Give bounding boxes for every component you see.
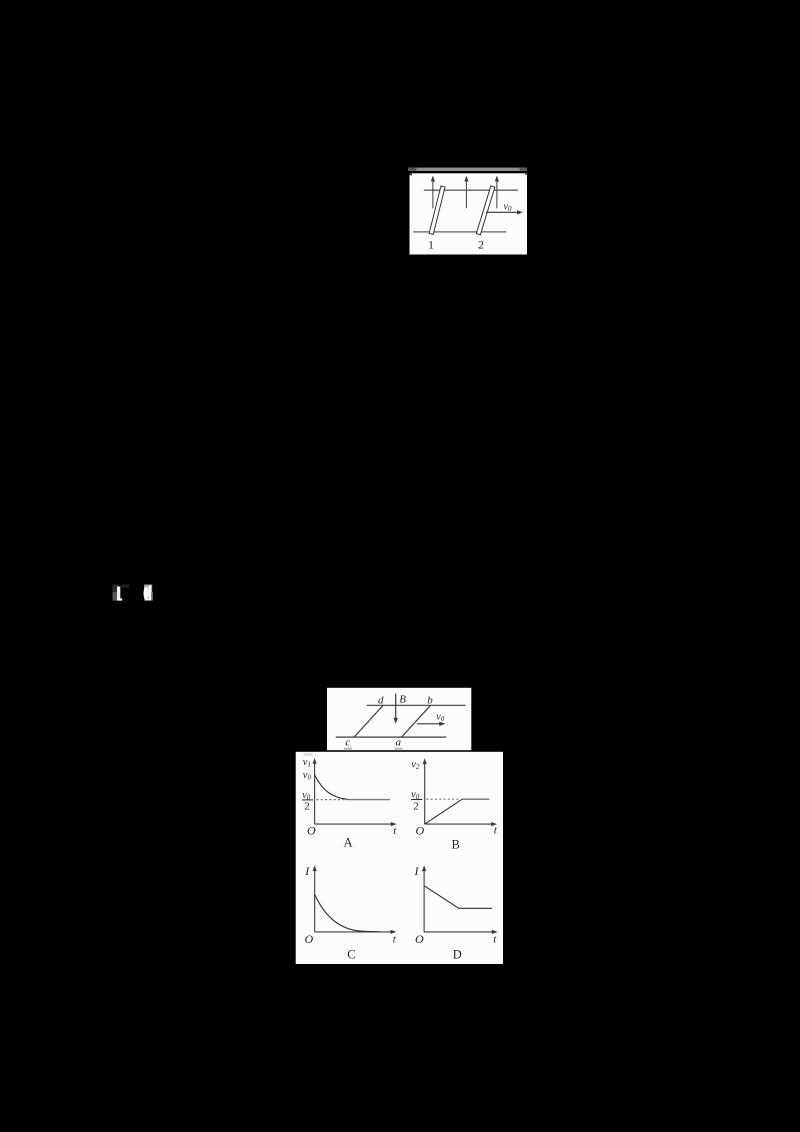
svg-text:B: B bbox=[452, 837, 460, 851]
svg-text:b: b bbox=[427, 694, 433, 706]
svg-text:A: A bbox=[344, 836, 353, 850]
svg-text:1: 1 bbox=[428, 238, 434, 252]
svg-text:O: O bbox=[305, 932, 314, 946]
svg-text:2: 2 bbox=[304, 801, 310, 813]
svg-text:c: c bbox=[345, 736, 350, 748]
svg-text:O: O bbox=[307, 824, 316, 838]
svg-text:D: D bbox=[453, 948, 462, 962]
svg-text:a: a bbox=[396, 736, 402, 748]
svg-text:d: d bbox=[378, 694, 384, 706]
svg-text:O: O bbox=[416, 824, 425, 838]
svg-text:C: C bbox=[347, 948, 355, 962]
svg-text:B: B bbox=[399, 694, 406, 706]
svg-text:2: 2 bbox=[413, 801, 419, 813]
svg-text:2: 2 bbox=[478, 238, 484, 252]
svg-text:O: O bbox=[415, 932, 424, 946]
